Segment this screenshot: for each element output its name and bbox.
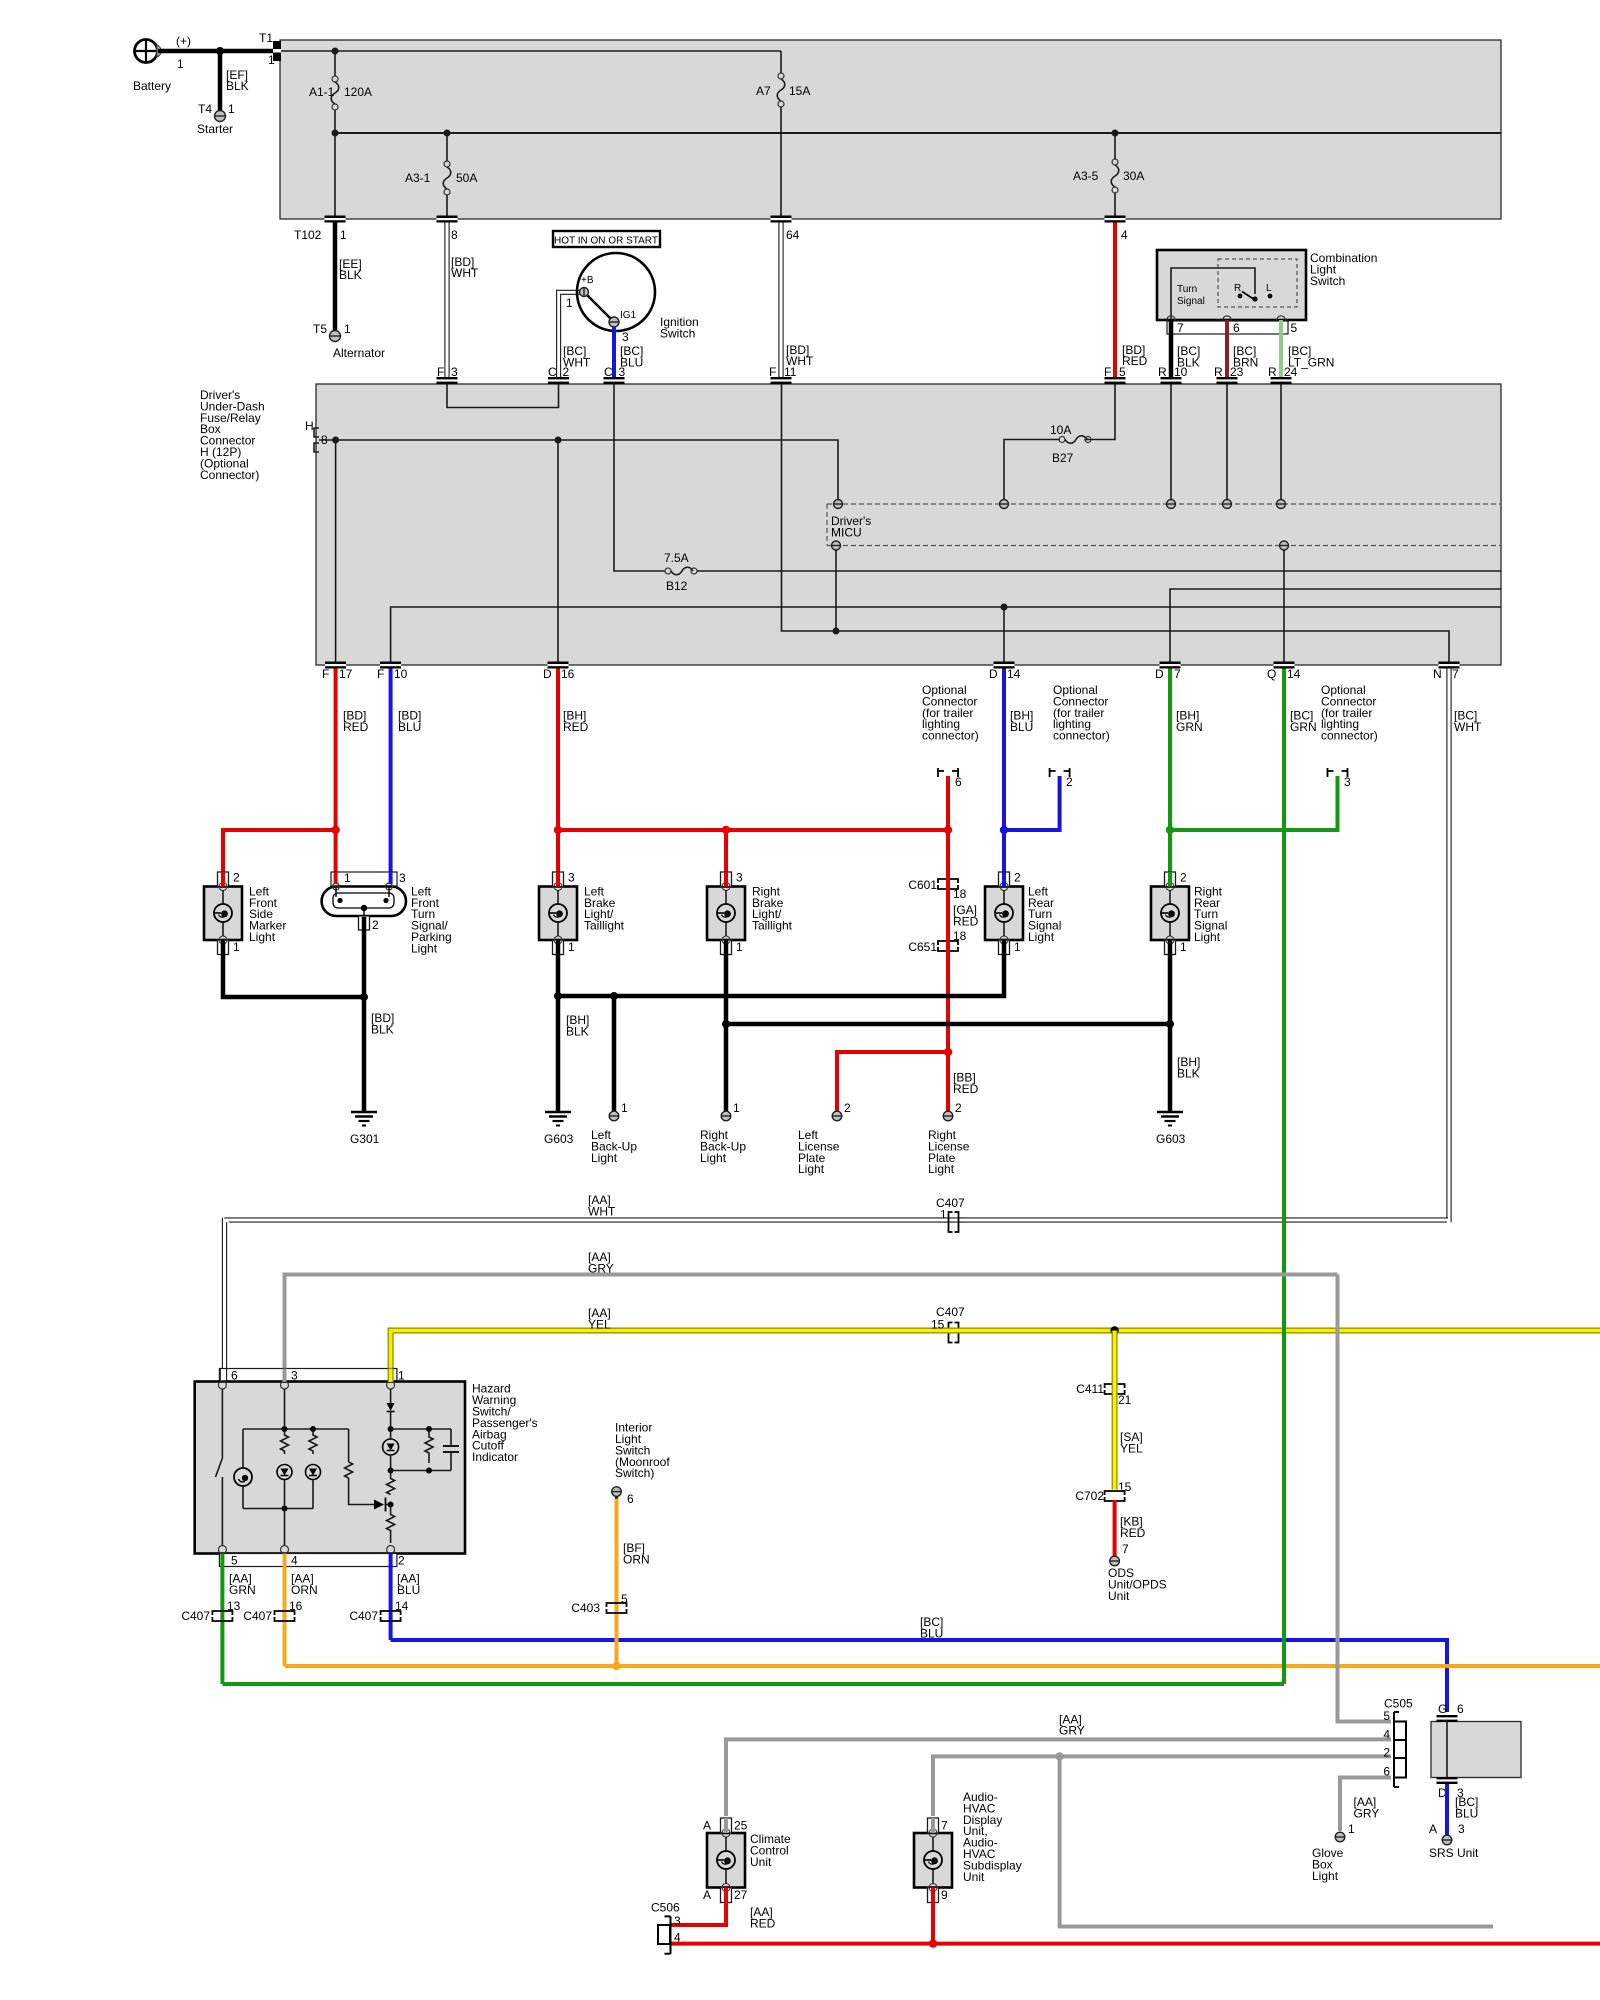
terminal IG1 [609, 317, 619, 327]
right rear turn signal light [1151, 871, 1227, 955]
hazard inner top rail [243, 1426, 349, 1432]
svg-text:C702: C702 [1075, 1489, 1104, 1503]
svg-text:BLK: BLK [566, 1024, 589, 1038]
wire stub audio pin 7 [931, 1818, 935, 1833]
wire [BH] GRN D7 drop [1170, 669, 1203, 831]
transistor Q1 [374, 1498, 391, 1512]
connector R 24 [1268, 365, 1298, 384]
svg-text:R: R [1268, 365, 1277, 379]
svg-text:C506: C506 [651, 1901, 680, 1915]
right brake light/taillight [707, 871, 793, 955]
wire F11 to N7 line [782, 384, 1450, 662]
svg-text:A: A [1429, 1822, 1437, 1836]
wire red to left brake pin3 [556, 830, 560, 874]
svg-text:1: 1 [344, 871, 351, 885]
svg-text:RED: RED [1120, 1526, 1146, 1540]
svg-text:G603: G603 [544, 1132, 574, 1146]
svg-text:D: D [1155, 667, 1164, 681]
svg-text:4: 4 [291, 1554, 298, 1568]
svg-text:23: 23 [1230, 365, 1244, 379]
svg-text:R: R [1158, 365, 1167, 379]
svg-text:Starter: Starter [197, 122, 233, 136]
LED D2 [306, 1465, 321, 1509]
svg-text:BLU: BLU [1010, 720, 1033, 734]
wire green branch to optional connector 3 [1166, 776, 1338, 834]
svg-text:R: R [1214, 365, 1223, 379]
svg-text:C651: C651 [908, 940, 937, 954]
svg-text:T102: T102 [294, 228, 322, 242]
svg-text:1: 1 [177, 57, 184, 71]
wire stub green over yellow crossing [1282, 1323, 1286, 1338]
connector F 10 [377, 662, 408, 682]
svg-text:T1: T1 [259, 31, 273, 45]
svg-text:3: 3 [451, 365, 458, 379]
svg-text:3: 3 [674, 1914, 681, 1928]
wire stub green over blue crossing [1282, 1632, 1286, 1648]
fuse A1-1 120A [309, 51, 372, 216]
capacitor branch rail [391, 1426, 451, 1474]
connector R 23 [1214, 365, 1244, 384]
wire gray line to audio and C505 pin2 [933, 1752, 1391, 1816]
svg-text:30A: 30A [1123, 169, 1144, 183]
svg-text:5: 5 [621, 1592, 628, 1606]
svg-text:GRY: GRY [588, 1261, 614, 1275]
wire [AA] GRN [222, 1567, 255, 1685]
svg-text:3: 3 [622, 330, 629, 344]
svg-text:Taillight: Taillight [752, 919, 793, 933]
wire [AA] BLU [391, 1567, 421, 1641]
svg-text:3: 3 [736, 871, 743, 885]
wire red branch to side marker [223, 826, 340, 872]
driver's under-dash fuse/relay box [316, 384, 1501, 665]
svg-text:F: F [769, 365, 776, 379]
svg-text:50A: 50A [456, 171, 477, 185]
switch wiper [1242, 292, 1258, 302]
svg-text:WHT: WHT [588, 1204, 616, 1218]
svg-text:Switch: Switch [660, 326, 695, 340]
wire stub right brake pin3 [724, 872, 728, 887]
wire stub climate pin A27 [724, 1888, 728, 1903]
connector T102 1 [294, 216, 347, 243]
wire gray C505 pin6 to glove box light [1340, 1778, 1391, 1837]
wire [BH] BLK right rear turn ground [1170, 954, 1200, 1111]
svg-text:2: 2 [1180, 871, 1187, 885]
svg-text:9: 9 [941, 1888, 948, 1902]
svg-text:Battery: Battery [133, 79, 171, 93]
LED D4 airbag indicator [383, 1429, 399, 1474]
hazard indicator bulb [234, 1429, 252, 1509]
svg-text:RED: RED [953, 914, 979, 928]
contact R [1234, 283, 1242, 298]
wire stub right rear turn pin2 [1168, 872, 1172, 887]
svg-text:MICU: MICU [831, 525, 862, 539]
wire stub right rear turn pin1 [1168, 940, 1173, 954]
wire [BB] RED license feed [837, 1048, 979, 1111]
svg-text:SRS Unit: SRS Unit [1429, 1846, 1479, 1860]
svg-text:RED: RED [953, 1082, 979, 1096]
svg-text:C407: C407 [349, 1609, 378, 1623]
svg-text:WHT: WHT [1454, 720, 1482, 734]
svg-text:Unit: Unit [963, 1870, 985, 1884]
wire stub left rear turn pin1 [1002, 940, 1007, 954]
wire [BC] WHT N7 drop [1447, 669, 1482, 1223]
contact L [1266, 283, 1272, 298]
wire D14 vertical [1003, 607, 1005, 662]
svg-text:5: 5 [1119, 365, 1126, 379]
svg-text:Light: Light [591, 1151, 618, 1165]
svg-text:BLK: BLK [1177, 1066, 1200, 1080]
svg-text:GRN: GRN [229, 1583, 256, 1597]
svg-text:2: 2 [233, 871, 240, 885]
connector C403 5 [571, 1592, 628, 1615]
svg-text:1: 1 [621, 1101, 628, 1115]
svg-text:A3-5: A3-5 [1073, 169, 1099, 183]
svg-text:Light: Light [1194, 930, 1221, 944]
wire [BC] GRN Q14 drop [1284, 669, 1317, 1685]
hazard inner bottom rail [243, 1506, 313, 1512]
turn signal dashed box [1218, 259, 1297, 307]
fuse B27 10A [1050, 423, 1091, 465]
svg-text:5: 5 [231, 1554, 238, 1568]
svg-text:GRY: GRY [1354, 1806, 1380, 1820]
left brake light/taillight [539, 871, 625, 955]
resistor R4 [425, 1429, 433, 1463]
svg-text:64: 64 [786, 228, 800, 242]
wire [AA] GRY horizontal [285, 1250, 1338, 1369]
svg-text:16: 16 [289, 1599, 303, 1613]
wire [BH] BLU D14 drop [1004, 669, 1033, 875]
svg-text:RED: RED [750, 1916, 776, 1930]
svg-text:Unit: Unit [750, 1855, 772, 1869]
wire [BC] BLK to R10 [1171, 320, 1200, 377]
svg-text:connector): connector) [922, 729, 979, 743]
svg-text:(+): (+) [176, 34, 191, 48]
svg-text:BLU: BLU [920, 1626, 943, 1640]
svg-text:connector): connector) [1321, 729, 1378, 743]
wire [KB] RED to ODS [1115, 1500, 1146, 1556]
wire stub hazard pin2 [389, 1554, 393, 1567]
wire [AA] ORN [285, 1567, 318, 1667]
wire stub hazard pin3 [283, 1369, 287, 1383]
wire F3 to C2 u-loop [447, 384, 559, 408]
svg-text:Alternator: Alternator [333, 346, 385, 360]
svg-text:7: 7 [941, 1819, 948, 1833]
wire [BC] BLU ignition to C3 [614, 327, 643, 377]
svg-text:Connector): Connector) [200, 468, 259, 482]
glove box light terminal [1312, 1832, 1345, 1883]
hazard pin 6 terminal [218, 1381, 226, 1389]
climate control unit [703, 1818, 791, 1903]
svg-text:1: 1 [228, 102, 235, 116]
wire F5 to B27 fuse [1004, 384, 1115, 499]
hazard pin3 wire [284, 1389, 286, 1545]
wire [BC] LT_GRN to R24 [1281, 320, 1334, 377]
svg-text:WHT: WHT [451, 266, 479, 280]
connector 8 [437, 216, 459, 243]
svg-text:10: 10 [394, 667, 408, 681]
resistor R1 [281, 1429, 289, 1454]
connector C505 [1383, 1697, 1413, 1788]
wire [AA] RED climate to C506 [671, 1903, 776, 1931]
resistor R5 [387, 1471, 395, 1508]
svg-text:ORN: ORN [291, 1583, 318, 1597]
svg-text:3: 3 [399, 871, 406, 885]
hazard switch top pin strip [219, 1369, 405, 1383]
wire orange bottom bus [285, 1664, 1600, 1668]
connector D 16 [543, 662, 575, 682]
svg-text:Switch: Switch [1310, 274, 1345, 288]
svg-text:YEL: YEL [588, 1317, 611, 1331]
wire C3 to fuse B12 line [614, 384, 1501, 571]
svg-text:BLK: BLK [371, 1022, 394, 1036]
svg-text:C407: C407 [181, 1609, 210, 1623]
capacitor C1 [443, 1429, 459, 1471]
svg-text:15: 15 [931, 1318, 945, 1332]
interior light switch (moonroof switch) [615, 1421, 670, 1481]
svg-text:ORN: ORN [623, 1552, 650, 1566]
turn signal inner outline [1171, 268, 1255, 320]
wire [AA] WHT horizontal [222, 1193, 1448, 1369]
wire stub white through C407 1 [944, 1218, 963, 1222]
svg-text:1: 1 [344, 322, 351, 336]
connector C411 21 [1076, 1382, 1124, 1396]
svg-text:A: A [703, 1888, 711, 1902]
wire stub yellow through C411 [1112, 1381, 1118, 1397]
wire left ground bus [558, 954, 1004, 1000]
svg-text:A1-1: A1-1 [309, 85, 335, 99]
SRS unit box [1431, 1722, 1521, 1778]
connector C601 [908, 878, 958, 892]
wire D7 line [1170, 589, 1501, 662]
svg-text:GRY: GRY [1059, 1724, 1085, 1738]
svg-text:3: 3 [568, 871, 575, 885]
ODS unit terminal [1108, 1556, 1167, 1603]
connector 4 [1105, 216, 1129, 243]
wire [BH] RED D16 drop [558, 669, 589, 831]
connector C407 13 [181, 1599, 240, 1623]
wire [BC] BLU to SRS [1429, 1784, 1478, 1836]
svg-text:1: 1 [1348, 1822, 1355, 1836]
left front turn signal / parking light [322, 871, 452, 955]
svg-text:10: 10 [1174, 365, 1188, 379]
combination switch pin strip [1167, 321, 1298, 335]
svg-text:1: 1 [1180, 940, 1187, 954]
svg-text:Light: Light [411, 941, 438, 955]
connector N 7 [1433, 662, 1460, 682]
svg-text:2: 2 [563, 365, 570, 379]
wire stub right brake pin1 [724, 940, 729, 954]
svg-text:120A: 120A [344, 85, 372, 99]
wire red to right brake pin3 [724, 830, 728, 874]
svg-text:A3-1: A3-1 [405, 171, 431, 185]
wire R24 into MICU [1280, 384, 1282, 499]
wire [BD] BLU F10 drop [391, 669, 422, 875]
resistor R2 [309, 1429, 317, 1454]
wire stub hazard pin4 [283, 1554, 287, 1567]
wire [BC] WHT ignition to C2 [557, 290, 591, 377]
svg-text:2: 2 [1383, 1746, 1390, 1760]
svg-text:B27: B27 [1052, 451, 1074, 465]
hazard switch blade [216, 1389, 223, 1545]
resistor R3 [345, 1429, 374, 1505]
svg-text:F: F [377, 667, 384, 681]
connector T1 [259, 31, 281, 67]
svg-text:7: 7 [1177, 321, 1184, 335]
MICU label [831, 514, 871, 539]
wire stub side marker pin2 [221, 872, 225, 887]
svg-text:1: 1 [1014, 940, 1021, 954]
svg-text:3: 3 [1458, 1822, 1465, 1836]
ground G603 left [544, 1112, 574, 1146]
svg-text:C407: C407 [243, 1609, 272, 1623]
wire stub turn signal pin1 [334, 872, 338, 884]
combination switch terminals [1167, 316, 1285, 324]
HOT IN ON OR START banner [553, 231, 660, 247]
connector D 7 [1155, 662, 1181, 682]
connector C407 15 [931, 1305, 965, 1343]
ignition switch [566, 253, 699, 344]
wire stub turn signal pin3 [389, 872, 393, 884]
svg-text:7: 7 [1452, 667, 1459, 681]
connector F 17 [322, 662, 353, 682]
connector F 11 [769, 365, 797, 384]
svg-text:1: 1 [736, 940, 743, 954]
wire red taillight bus [554, 826, 952, 834]
optional connector (trailer) 3 [1321, 683, 1378, 789]
svg-text:4: 4 [1383, 1728, 1390, 1742]
svg-text:1: 1 [340, 228, 347, 242]
driver's MICU dashed row 2 [827, 545, 1501, 547]
svg-text:F: F [437, 365, 444, 379]
connector 64 [771, 216, 800, 243]
connector F 5 [1104, 365, 1126, 384]
svg-text:25: 25 [734, 1819, 748, 1833]
wire stub yellow through C407 15 [944, 1328, 963, 1334]
svg-text:A7: A7 [756, 84, 771, 98]
MICU terminal (R10) [1167, 500, 1176, 509]
svg-text:14: 14 [1287, 667, 1301, 681]
svg-text:Switch): Switch) [615, 1466, 654, 1480]
wire [SA] YEL drop [1115, 1331, 1143, 1497]
left license plate light terminal [798, 1101, 851, 1176]
fuse A3-1 50A [405, 133, 477, 216]
connector C 2 [548, 365, 570, 384]
svg-text:7.5A: 7.5A [664, 551, 689, 565]
svg-text:RED: RED [563, 720, 589, 734]
svg-text:BLU: BLU [1455, 1806, 1478, 1820]
svg-text:F: F [322, 667, 329, 681]
svg-text:Light: Light [1028, 930, 1055, 944]
resistor R6 [387, 1505, 395, 1544]
wire stub side marker pin1 [221, 940, 226, 954]
connector G 6 [1437, 1702, 1465, 1722]
wire [GA] RED vertical [948, 776, 979, 1052]
under-dash box label [200, 388, 265, 482]
hazard warning switch / passenger's airbag cutoff indicator box [195, 1382, 538, 1554]
wire [BD] RED F17 drop [336, 669, 369, 831]
left rear turn signal light [985, 871, 1061, 955]
driver's MICU dashed row 1 [827, 504, 1501, 546]
connector D 14 [989, 662, 1021, 682]
svg-text:Taillight: Taillight [584, 919, 625, 933]
svg-text:16: 16 [561, 667, 575, 681]
wire red to turn signal pin1 [334, 830, 338, 874]
svg-text:D: D [543, 667, 552, 681]
wire stub turn signal pin2 [362, 917, 367, 930]
svg-text:GRN: GRN [1290, 720, 1317, 734]
svg-text:7: 7 [1122, 1542, 1129, 1556]
terminal +B [580, 288, 589, 297]
wire blue branch to optional connector 2 [1000, 776, 1060, 834]
wire [BD] WHT F3 [445, 223, 479, 378]
svg-text:RED: RED [1122, 354, 1148, 368]
svg-text:Q: Q [1267, 667, 1276, 681]
fuse B12 7.5A [664, 551, 697, 593]
wire left back-up drop [612, 996, 617, 1111]
fuse A7 15A [756, 51, 810, 216]
svg-text:G301: G301 [350, 1132, 380, 1146]
svg-text:5: 5 [1291, 321, 1298, 335]
svg-text:C601: C601 [908, 878, 937, 892]
connector C407 14 [349, 1599, 408, 1623]
wire [BD] BLK turn signal ground [360, 930, 394, 1111]
connector C 3 [604, 365, 626, 384]
wire red audio pin9 drop [931, 1903, 935, 1944]
svg-text:R: R [1234, 283, 1241, 294]
wire stub audio pin 9 [931, 1888, 935, 1903]
svg-text:HOT IN ON OR START: HOT IN ON OR START [554, 236, 658, 247]
svg-text:2: 2 [398, 1554, 405, 1568]
wire stub climate pin A25 [724, 1818, 728, 1833]
hazard pin 4 terminal [281, 1546, 289, 1554]
fuse A3-5 30A [1073, 133, 1144, 216]
MICU terminal (H8) [834, 500, 843, 509]
connector H pin 8 bracket [305, 419, 328, 452]
svg-text:Signal: Signal [1177, 296, 1205, 307]
alternator terminal T5 [313, 322, 385, 360]
wire R10 into MICU [1170, 384, 1172, 499]
svg-text:6: 6 [955, 775, 962, 789]
wire [BC] BRN to R23 [1227, 320, 1258, 377]
SRS unit terminal [1429, 1835, 1479, 1860]
combination light switch [1157, 250, 1377, 320]
left back-up light terminal [591, 1101, 637, 1165]
optional connector (trailer) 2 [1050, 683, 1110, 789]
svg-text:A: A [703, 1819, 711, 1833]
hazard pin 2 terminal [387, 1546, 395, 1554]
svg-text:6: 6 [1457, 1702, 1464, 1716]
svg-text:connector): connector) [1053, 729, 1110, 743]
svg-text:6: 6 [1233, 321, 1240, 335]
audio-hvac display unit [914, 1790, 1022, 1903]
wire T1 to A7 [281, 48, 781, 55]
svg-text:B12: B12 [666, 579, 688, 593]
wire [AA] GRY to C505 pin5 [1338, 1275, 1392, 1722]
svg-text:24: 24 [1284, 365, 1298, 379]
wire [AA] YEL horizontal [391, 1306, 1600, 1369]
svg-text:BLK: BLK [339, 268, 362, 282]
svg-text:3: 3 [619, 365, 626, 379]
svg-text:Light: Light [249, 930, 276, 944]
connector R 10 [1158, 365, 1188, 384]
svg-text:C403: C403 [571, 1601, 600, 1615]
wire green bottom bus [222, 1682, 1284, 1686]
svg-text:C411: C411 [1076, 1382, 1104, 1396]
svg-text:2: 2 [844, 1101, 851, 1115]
wire [BC] BLU horizontal [391, 1615, 1447, 1712]
left front side marker light [204, 871, 286, 955]
svg-text:D: D [989, 667, 998, 681]
